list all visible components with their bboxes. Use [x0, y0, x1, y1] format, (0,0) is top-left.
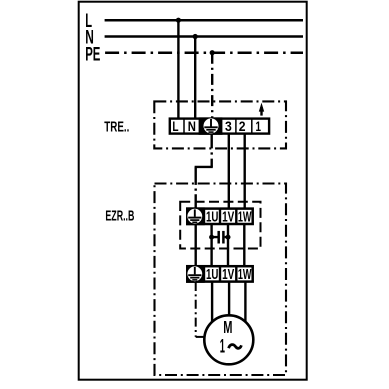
- border frame (decorative): [79, 2, 307, 380]
- wire 1W strip1 to strip2: [243, 224, 245, 266]
- terminal TRE PE cell (black square with circle): [199, 117, 223, 134]
- terminal strip TRE: outer: [170, 119, 269, 134]
- wire 1U strip1 to strip2: [210, 224, 212, 266]
- svg-text:1W: 1W: [238, 209, 252, 225]
- svg-text:1V: 1V: [222, 209, 234, 225]
- svg-text:TRE..: TRE..: [104, 120, 129, 136]
- strip2 dividers: [204, 266, 236, 281]
- svg-text:M: M: [223, 317, 232, 337]
- svg-text:1W: 1W: [238, 267, 252, 283]
- wire PE jog horizontal: [195, 166, 213, 168]
- motor label ~ (tilde): [229, 345, 242, 349]
- svg-text:1V: 1V: [222, 267, 234, 283]
- junction dot capacitor right: [226, 235, 231, 240]
- wire N drop to terminal N: [194, 37, 196, 119]
- capacitor C (between 1U and 1V): [212, 236, 228, 238]
- junction dot on PE bus: [210, 50, 215, 55]
- controller box TRE (dash-dot): [154, 101, 286, 148]
- wire terminal 3 to 1V: [228, 134, 230, 209]
- fan box EZR..B (dash-dot): [155, 184, 287, 376]
- wire PE jog down to motor terminal PE: [194, 167, 196, 210]
- wire 1W to motor: [244, 282, 246, 322]
- motor M1~ circle: [204, 315, 253, 364]
- wire PE bus (dash-dot): [105, 51, 303, 54]
- earth symbol strip1: [188, 209, 201, 222]
- terminal strip1 PE cell: [186, 207, 205, 225]
- svg-text:1: 1: [256, 118, 262, 134]
- wire terminal 2 to 1W: [243, 134, 245, 209]
- svg-text:2: 2: [239, 118, 246, 134]
- terminal strip 2 (motor): outer: [187, 266, 252, 281]
- terminal strip2 PE cell: [186, 265, 205, 283]
- wire L bus: [105, 19, 303, 22]
- earth symbol in TRE PE cell: [204, 119, 217, 132]
- junction dot capacitor left: [209, 235, 214, 240]
- svg-text:1U: 1U: [206, 267, 218, 283]
- wire 1U to motor: [211, 282, 213, 322]
- terminal compartment box (dashed): [180, 202, 260, 249]
- earth symbol strip2: [188, 267, 201, 280]
- svg-text:N: N: [188, 118, 196, 134]
- junction dot on L bus: [176, 18, 181, 23]
- wire 1V strip1 to strip2: [227, 224, 229, 266]
- svg-text:1U: 1U: [206, 209, 218, 225]
- wire PE to motor frame (dash-dot): [195, 282, 197, 337]
- wire PE below TRE block (dash-dot with jog): [210, 134, 212, 161]
- strip1 dividers: [204, 209, 236, 224]
- wire L drop to terminal L: [177, 20, 179, 118]
- arrow (up, inside TRE box): [259, 103, 264, 112]
- wire PE drop to terminal PE (dash-dot): [211, 53, 213, 118]
- svg-text:EZR..B: EZR..B: [105, 209, 134, 225]
- junction dot on N bus: [193, 34, 198, 39]
- svg-text:L: L: [172, 118, 179, 134]
- wire PE strip1 to strip2: [194, 224, 196, 266]
- terminal strip TRE: cell dividers: [184, 119, 252, 134]
- svg-text:3: 3: [225, 118, 232, 134]
- wire 1V to motor: [228, 282, 230, 317]
- svg-text:1: 1: [220, 337, 225, 358]
- terminal strip 1 (fan): outer: [187, 209, 252, 224]
- wire N bus: [105, 35, 303, 38]
- svg-text:PE: PE: [85, 44, 100, 65]
